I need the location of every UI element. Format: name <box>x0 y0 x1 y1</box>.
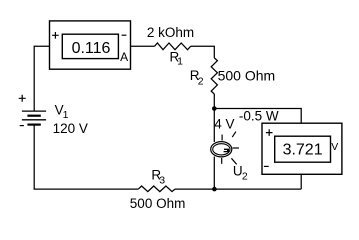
ammeter <box>50 21 131 69</box>
svg-text:2: 2 <box>198 75 204 87</box>
resistor R3 <box>138 186 175 192</box>
wire top junction to voltmeter top riser <box>214 109 301 124</box>
wire top junction down to lamp <box>213 109 215 143</box>
voltmeter <box>262 123 342 174</box>
svg-text:0.116: 0.116 <box>72 40 111 57</box>
svg-text:-0.5 W: -0.5 W <box>239 108 279 123</box>
svg-text:120 V: 120 V <box>53 121 88 136</box>
node junction bottom <box>212 187 217 192</box>
resistor R2 <box>211 58 217 94</box>
node junction top <box>212 106 217 111</box>
svg-text:2 kOhm: 2 kOhm <box>147 25 194 40</box>
battery V1 <box>22 111 46 125</box>
svg-text:A: A <box>120 50 128 64</box>
battery plus sign <box>19 95 26 102</box>
wire bottom rail right segment to voltmeter riser <box>175 188 301 190</box>
wire R2 to top junction <box>213 94 215 109</box>
resistor R1 <box>155 43 191 50</box>
svg-text:1: 1 <box>63 109 69 121</box>
svg-text:2: 2 <box>242 170 248 182</box>
svg-text:1: 1 <box>177 56 183 68</box>
svg-text:4 V: 4 V <box>214 116 234 131</box>
lamp U2 <box>211 132 239 165</box>
wire bottom rail left segment <box>34 188 139 190</box>
svg-text:V: V <box>331 141 338 153</box>
svg-text:3.721: 3.721 <box>283 142 323 159</box>
wire from battery positive up and right to ammeter <box>34 46 49 111</box>
wire lamp to bottom junction <box>213 157 215 190</box>
svg-text:500 Ohm: 500 Ohm <box>218 68 276 84</box>
svg-text:3: 3 <box>159 175 165 187</box>
battery minus sign <box>20 125 24 127</box>
wire voltmeter bottom riser <box>300 174 302 190</box>
svg-text:500 Ohm: 500 Ohm <box>130 196 186 211</box>
wire R1 to top-right corner and down to R2 <box>191 46 215 58</box>
wire ammeter right to resistor R1 <box>131 45 155 47</box>
wire from battery negative down to bottom rail <box>33 125 35 189</box>
